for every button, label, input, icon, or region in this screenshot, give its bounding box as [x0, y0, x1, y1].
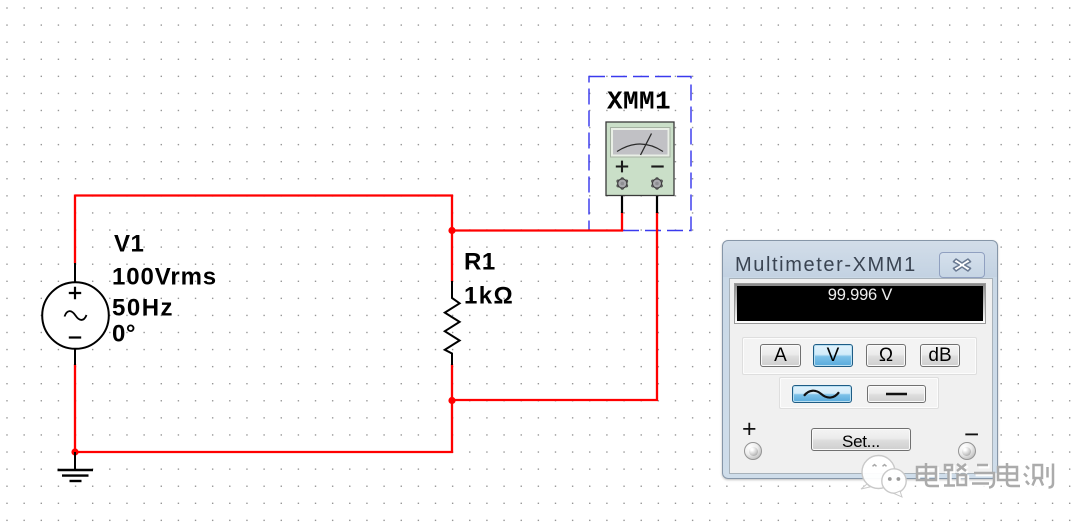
button dB: [920, 344, 960, 367]
value label 100Vrms: [112, 264, 217, 291]
pin stub: multimeter - pin (black): [656, 187, 658, 213]
panel content area: [729, 278, 993, 474]
svg-text:100Vrms: 100Vrms: [112, 264, 217, 291]
panel - terminal label: [964, 419, 979, 450]
label V1: [114, 231, 144, 258]
panel + terminal label: [742, 415, 757, 444]
wechat bubble small: [882, 469, 906, 497]
button AC (selected, sine symbol): [792, 385, 852, 403]
multimeter XMM1 icon: [606, 122, 674, 196]
wire: top horizontal net V1+ to R1 top: [75, 194, 453, 196]
AC source V1 symbol: [42, 282, 109, 349]
pin stub: V1 + pin (black): [74, 263, 76, 283]
wechat bubble large: [861, 456, 895, 490]
svg-text:1kΩ: 1kΩ: [464, 283, 514, 310]
wire: bottom horizontal return to ground node: [75, 451, 453, 453]
label R1: [464, 249, 496, 276]
window title text: [735, 254, 917, 277]
group box: AC/DC buttons: [779, 377, 939, 409]
button Ohm: [866, 344, 906, 367]
close button: [939, 252, 985, 278]
measurement display: [734, 283, 986, 324]
wire: bottom horizontal from multimeter - to R1 bottom node: [452, 399, 658, 401]
panel + terminal jack: [744, 442, 762, 460]
svg-text:V1: V1: [114, 231, 144, 258]
wire: multimeter + lead vertical red part: [621, 212, 623, 232]
group box: mode buttons: [742, 337, 977, 375]
label XMM1: [607, 87, 671, 117]
watermark text white emboss shadow: [919, 465, 1055, 490]
panel - terminal jack: [958, 442, 976, 460]
wire: multimeter - lead long vertical down to bottom node: [656, 212, 658, 401]
ground: [58, 452, 94, 481]
multimeter instrument panel window Multimeter-XMM1: [722, 240, 998, 479]
value label 1k ohm: [464, 283, 514, 310]
pin stub: multimeter + pin (black): [621, 187, 623, 213]
wire: V1 - pin down to ground node: [74, 364, 76, 453]
wire: R1 bottom vertical red segment: [451, 364, 453, 453]
svg-text:R1: R1: [464, 249, 496, 276]
button DC (dash symbol): [867, 385, 926, 403]
watermark: [840, 440, 1080, 524]
value label 50Hz: [112, 295, 174, 322]
button V (selected): [813, 344, 853, 367]
watermark text dian lu yu dian ce (electric circuit and measurement): [917, 463, 1053, 488]
junction node at R1 bottom: [448, 397, 455, 404]
pin stub: V1 - pin (black): [74, 348, 76, 365]
wire: horizontal from node to multimeter + lead: [452, 229, 623, 231]
button Set...: [811, 428, 911, 451]
value label 0 degrees: [112, 321, 136, 348]
junction node at ground: [71, 448, 78, 455]
junction node at R1 top: [448, 227, 455, 234]
svg-text:XMM1: XMM1: [607, 87, 671, 117]
multimeter XMM1 selection dashed box: [589, 77, 691, 231]
wire: R1 top vertical segment: [451, 195, 453, 283]
display reading 99.996 V: [735, 286, 985, 305]
svg-text:50Hz: 50Hz: [112, 295, 174, 322]
svg-text:0°: 0°: [112, 321, 136, 348]
resistor R1: [445, 281, 460, 365]
wire: left vertical from top corner down to V1 + pin: [74, 195, 76, 264]
button A: [760, 344, 801, 367]
